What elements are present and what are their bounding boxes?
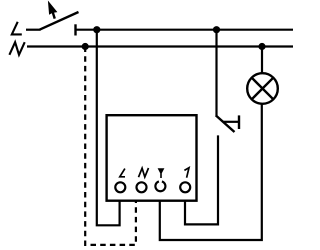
terminal label N bbox=[139, 168, 149, 177]
switch S blade (open) bbox=[40, 12, 79, 30]
terminal label output arrow bbox=[158, 168, 165, 178]
node: push-button feed junction bbox=[213, 26, 220, 33]
switch fixed contact tick bbox=[74, 24, 76, 35]
lamp cross stroke 1 bbox=[252, 78, 274, 100]
label L (mains phase) bbox=[12, 22, 22, 35]
wire: L feed down to terminal L bbox=[97, 30, 120, 226]
wire: lamp return to output terminal bbox=[160, 104, 262, 240]
terminal N bbox=[137, 182, 147, 192]
node: lamp feed junction bbox=[258, 43, 265, 50]
terminal label L bbox=[120, 169, 125, 177]
node: L feed junction bbox=[93, 26, 100, 33]
lamp E1 circle bbox=[247, 73, 278, 104]
device box U1 (switch insert) bbox=[107, 115, 197, 201]
push-button actuator rod bbox=[223, 121, 239, 123]
wire L stub bbox=[26, 29, 41, 31]
push-button bar bbox=[238, 115, 240, 129]
wire: lamp feed from N bbox=[261, 47, 263, 74]
wire (dashed): N down to terminal N bbox=[85, 47, 136, 245]
node: N dashed junction bbox=[82, 43, 89, 50]
wire: push-button feed down bbox=[215, 30, 217, 117]
terminal output bbox=[155, 181, 165, 191]
cursor arrow (actuation pointer) bbox=[48, 1, 58, 20]
wire: push-button to terminal 1 bbox=[185, 135, 218, 224]
terminal L bbox=[115, 182, 125, 192]
lamp cross stroke 2 bbox=[252, 78, 274, 100]
push-button T blade (open) bbox=[216, 115, 235, 132]
wire L line bbox=[76, 29, 294, 31]
terminal 1 bbox=[180, 182, 190, 192]
terminal label 1 bbox=[184, 168, 189, 178]
wire N line bbox=[27, 45, 293, 47]
label N (neutral) bbox=[9, 42, 24, 55]
